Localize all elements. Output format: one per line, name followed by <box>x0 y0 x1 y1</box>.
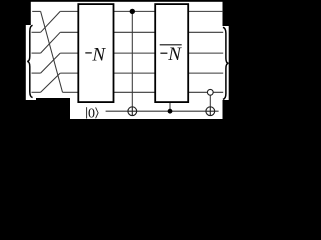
right brace <box>223 27 229 99</box>
control line from open circle to target <box>209 92 211 115</box>
wire row3 into box1 <box>60 52 78 54</box>
wire row4 left stub <box>32 72 41 74</box>
wire row2 left stub <box>32 31 41 33</box>
white canvas bottom ancilla strip <box>70 96 223 119</box>
svg-text:N: N <box>91 44 106 65</box>
ket label |0> <box>87 107 99 122</box>
control line from row1 dot to target <box>131 11 133 115</box>
svg-text:0: 0 <box>88 107 95 122</box>
label -N of box U1 <box>85 44 106 65</box>
left brace <box>27 25 32 97</box>
control dot on ancilla <box>168 109 173 114</box>
wire row5 right <box>188 91 223 93</box>
wire row2 between boxes <box>114 31 156 33</box>
crossing diagonal row5 to row4 <box>41 73 61 92</box>
wire row4 between boxes <box>114 72 156 74</box>
wire row1 between boxes <box>114 10 156 12</box>
white pad right brace <box>223 26 229 100</box>
crossing diagonal row3 to row2 <box>41 32 61 53</box>
wire row5 into box1 <box>63 91 79 93</box>
control dot on row1 <box>130 9 135 14</box>
wire row3 between boxes <box>114 52 156 54</box>
wire row1 left stub <box>32 10 40 12</box>
wire row2 right <box>188 31 223 33</box>
crossing diagonal row1 to row5 <box>41 11 63 92</box>
box U1 -N <box>78 4 113 102</box>
wire row1 into box1 <box>60 10 78 12</box>
wire row1 right <box>188 10 223 12</box>
crossing diagonal row2 to row1 <box>41 11 61 32</box>
target XOR right <box>206 107 215 116</box>
ancilla wire <box>106 110 219 112</box>
label -N overline of box U2 <box>160 44 183 65</box>
wire row3 right <box>188 52 223 54</box>
wire row3 left stub <box>32 52 41 54</box>
white canvas main area <box>31 2 223 98</box>
svg-text:N: N <box>167 44 182 65</box>
wire row5 between boxes <box>114 91 156 93</box>
wire row4 into box1 <box>60 72 78 74</box>
box U2 -N bar <box>155 4 188 102</box>
wire row5 left stub <box>32 91 41 93</box>
wire row4 right <box>188 72 223 74</box>
target XOR left <box>128 107 137 116</box>
open circle anticontrol on row5 <box>207 89 213 95</box>
wire row2 into box1 <box>60 31 78 33</box>
crossing diagonal row4 to row3 <box>41 53 61 73</box>
control line from box2 bottom to dot <box>169 103 171 112</box>
white pad left brace <box>26 25 36 100</box>
